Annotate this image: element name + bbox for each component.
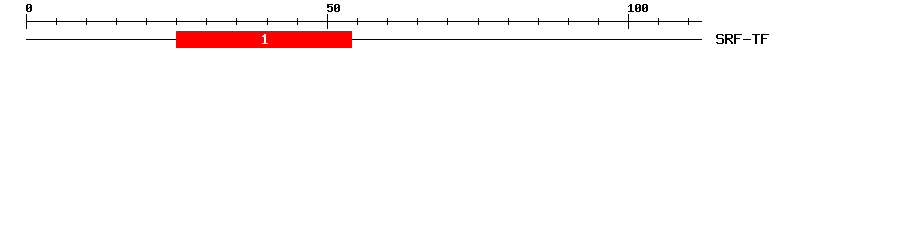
ruler baseline bbox=[26, 21, 702, 22]
minor ticks bbox=[56, 18, 689, 25]
track label "SRF-TF" bbox=[716, 34, 769, 44]
feature box (red) bbox=[176, 31, 352, 48]
major tick 100 bbox=[628, 14, 629, 29]
ruler label "0" bbox=[26, 4, 32, 12]
ruler label "50" bbox=[327, 4, 340, 12]
ruler label "100" bbox=[628, 4, 648, 12]
background bbox=[0, 0, 900, 58]
major tick 50 bbox=[327, 14, 328, 29]
major tick 0 bbox=[26, 14, 27, 29]
track feature line bbox=[26, 39, 702, 40]
feature label "1" bbox=[262, 34, 268, 44]
